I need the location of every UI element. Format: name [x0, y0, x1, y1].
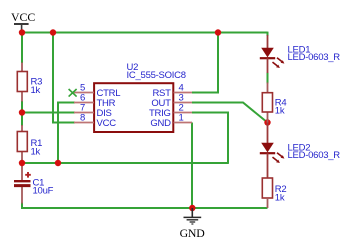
wire VCC drop to pin 8 [53, 33, 75, 123]
svg-text:VCC: VCC [97, 118, 117, 129]
op-amp U1: none; IC U2 555 timer [94, 62, 186, 132]
pin 4 RST [152, 83, 192, 100]
svg-text:1: 1 [179, 113, 184, 124]
LED LED1 [260, 35, 341, 73]
resistor R2 [262, 178, 286, 208]
wire node row [22, 162, 228, 164]
svg-text:VCC: VCC [11, 10, 35, 24]
junction pin8 drop [50, 29, 56, 35]
wire TRIG pin 2 [192, 113, 228, 164]
svg-text:GND: GND [180, 226, 206, 240]
pin 2 TRIG [149, 103, 192, 120]
wire VCC to R3 [21, 33, 23, 64]
LED LED2 [260, 123, 341, 179]
wire RST pin 4 to rail [192, 33, 218, 93]
pin 5 CTRL [74, 83, 120, 100]
power VCC [11, 10, 35, 33]
junction C1 node [19, 160, 25, 166]
svg-text:1k: 1k [31, 146, 41, 157]
pin 3 OUT [151, 93, 192, 110]
wire OUT pin 3 diagonal [192, 103, 268, 123]
pin 1 GND [150, 113, 192, 130]
svg-text:10uF: 10uF [33, 185, 54, 196]
wire VCC top rail [22, 32, 268, 34]
wire GND pin 1 down [191, 123, 193, 209]
svg-text:1k: 1k [275, 106, 285, 117]
resistor R3 [17, 63, 42, 102]
wire LED1 to R4 [267, 73, 269, 84]
pin 8 VCC [74, 113, 116, 130]
pin 7 DIS [74, 103, 112, 120]
svg-text:LED-0603_R: LED-0603_R [288, 150, 341, 161]
wire R3 to R1 node [21, 101, 23, 126]
wire ground rail [22, 203, 268, 209]
no-connect X on pin 5 [69, 89, 77, 97]
junction OUT/R4/LED2 [264, 119, 270, 125]
svg-text:1k: 1k [31, 85, 41, 96]
wire rail corner into LED1 [267, 32, 269, 36]
ground GND [180, 208, 206, 240]
junction VCC stem [19, 29, 25, 35]
svg-text:IC_555-SOIC8: IC_555-SOIC8 [127, 70, 186, 81]
svg-text:GND: GND [150, 118, 171, 129]
resistor R1 [17, 125, 42, 163]
svg-text:LED-0603_R: LED-0603_R [288, 52, 341, 63]
pin 6 THR [74, 93, 116, 110]
capacitor C1 [14, 163, 54, 204]
svg-text:1k: 1k [275, 192, 285, 203]
wire DIS pin 7 [22, 112, 75, 114]
junction R3/R1/DIS [19, 109, 25, 115]
wire THR pin 6 [58, 103, 75, 164]
resistor R4 [262, 83, 286, 123]
svg-text:8: 8 [80, 113, 85, 124]
junction THR node [55, 160, 61, 166]
junction RST rail [215, 29, 221, 35]
junction GND rail [189, 205, 195, 211]
